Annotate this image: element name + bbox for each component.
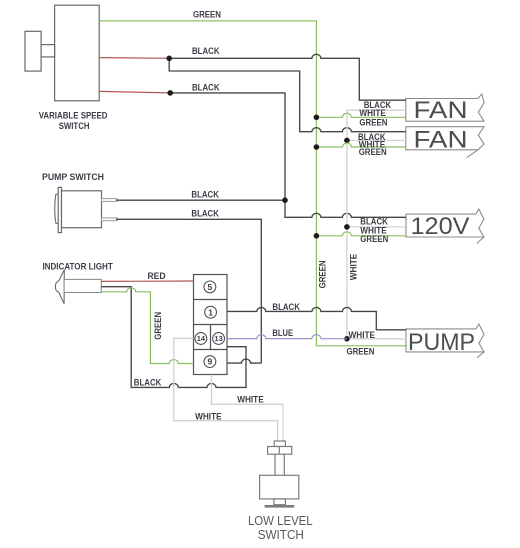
svg-text:WHITE: WHITE bbox=[359, 108, 386, 118]
svg-text:GREEN: GREEN bbox=[359, 117, 387, 127]
svg-text:WHITE: WHITE bbox=[195, 411, 222, 421]
junction dot PUMP white/blue bbox=[344, 336, 350, 342]
junction dot wire1 bbox=[166, 56, 172, 62]
svg-text:BLUE: BLUE bbox=[272, 328, 293, 338]
svg-text:VARIABLE SPEED: VARIABLE SPEED bbox=[39, 110, 108, 120]
low level switch bottom bar bbox=[265, 505, 295, 508]
variable speed switch shaft bbox=[41, 45, 55, 57]
svg-text:1: 1 bbox=[208, 307, 213, 317]
svg-text:BLACK: BLACK bbox=[192, 83, 220, 93]
connector FAN 1 box bbox=[406, 94, 484, 121]
wire indicator green to terminal 9 bbox=[101, 288, 193, 364]
low level switch collar bbox=[268, 447, 292, 455]
terminal 13 bbox=[213, 333, 225, 345]
low level switch top cap bbox=[274, 441, 285, 447]
wire pump switch 2 black down to terminal 9 bbox=[116, 219, 261, 363]
wire terminal 13 blue bbox=[227, 335, 347, 339]
pump switch flange bbox=[58, 187, 101, 232]
junction dot FAN1 green bbox=[314, 115, 320, 121]
connector 120V box bbox=[406, 209, 484, 237]
svg-text:INDICATOR LIGHT: INDICATOR LIGHT bbox=[42, 262, 113, 272]
wire PUMP white bbox=[347, 338, 407, 340]
svg-text:GREEN: GREEN bbox=[153, 312, 163, 340]
svg-text:GREEN: GREEN bbox=[317, 260, 327, 288]
junction dot 120V green bbox=[314, 233, 320, 239]
svg-text:GREEN: GREEN bbox=[360, 234, 388, 244]
svg-text:BLACK: BLACK bbox=[192, 46, 220, 56]
svg-text:BLACK: BLACK bbox=[191, 189, 219, 199]
svg-text:WHITE: WHITE bbox=[237, 395, 264, 405]
svg-text:GREEN: GREEN bbox=[193, 10, 221, 20]
svg-text:FAN: FAN bbox=[414, 127, 468, 154]
junction dot 120V white bbox=[344, 224, 350, 230]
wire indicator black to terminal 13 (detour) bbox=[101, 287, 246, 388]
wire 120V green bbox=[316, 232, 406, 236]
svg-text:SWITCH: SWITCH bbox=[59, 121, 90, 131]
svg-text:BLACK: BLACK bbox=[272, 302, 300, 312]
junction dot wire2 bbox=[167, 90, 173, 96]
low level switch float bbox=[260, 475, 299, 499]
svg-text:120V: 120V bbox=[411, 213, 470, 240]
wire VSS output 1 red segment bbox=[99, 57, 169, 60]
connector PUMP box bbox=[406, 324, 484, 352]
connector FAN 2 box bbox=[406, 127, 484, 150]
junction dot FAN2 green bbox=[314, 144, 320, 150]
terminal 1 bbox=[205, 306, 217, 318]
svg-text:9: 9 bbox=[208, 357, 213, 367]
svg-text:FAN: FAN bbox=[414, 97, 468, 124]
low level switch stem bbox=[274, 454, 276, 475]
terminal 5 bbox=[204, 281, 216, 293]
wire white bus (FAN1 white down to pump junction) bbox=[347, 110, 406, 339]
wire terminal 9 white to low level switch bbox=[212, 375, 284, 442]
wire terminal 14 white to low level switch bbox=[174, 338, 278, 441]
svg-text:13: 13 bbox=[214, 334, 222, 343]
variable speed switch knob bbox=[25, 31, 41, 71]
svg-text:GREEN: GREEN bbox=[359, 147, 387, 157]
terminal 9 bbox=[204, 356, 216, 368]
junction dot FAN2 white bbox=[344, 138, 350, 144]
wire pump switch 1 black bbox=[116, 199, 285, 201]
variable speed switch body bbox=[25, 5, 99, 101]
svg-text:LOW LEVEL: LOW LEVEL bbox=[248, 513, 313, 528]
svg-text:RED: RED bbox=[148, 271, 166, 281]
svg-text:PUMP SWITCH: PUMP SWITCH bbox=[42, 172, 104, 182]
pump switch body bbox=[62, 191, 102, 228]
wire FAN2 white bbox=[347, 139, 406, 141]
svg-text:BLACK: BLACK bbox=[191, 209, 219, 219]
terminal 14 bbox=[195, 333, 207, 345]
svg-text:SWITCH: SWITCH bbox=[258, 527, 304, 542]
wire VSS output 1 black to FAN1 bbox=[169, 54, 406, 100]
wire 120V white bbox=[347, 226, 406, 228]
wire FAN2 green bbox=[316, 143, 406, 147]
low level switch bbox=[260, 441, 299, 506]
wire green bus from VSS to PUMP bbox=[99, 21, 407, 346]
svg-text:WHITE: WHITE bbox=[349, 330, 376, 340]
pump switch terminal 1 bbox=[102, 199, 118, 202]
indicator light body bbox=[64, 279, 101, 292]
wire terminal 9 right stub bbox=[227, 359, 261, 363]
svg-text:GREEN: GREEN bbox=[347, 347, 375, 357]
wire VSS output 2 black to 120V bbox=[170, 93, 406, 217]
wire FAN1 green bbox=[316, 113, 405, 117]
svg-text:PUMP: PUMP bbox=[408, 329, 475, 356]
svg-text:WHITE: WHITE bbox=[348, 254, 358, 281]
wire VSS output 2 red segment bbox=[99, 91, 170, 93]
low level switch lower stub bbox=[274, 499, 286, 505]
svg-text:BLACK: BLACK bbox=[134, 378, 162, 388]
wire branch to FAN2 black bbox=[169, 58, 406, 131]
svg-text:5: 5 bbox=[208, 282, 213, 292]
wire terminal 1 black to PUMP bbox=[227, 307, 406, 329]
svg-text:14: 14 bbox=[197, 334, 206, 343]
pump switch rocker bbox=[55, 194, 58, 224]
wire indicator red bbox=[101, 280, 193, 282]
indicator light bezel bbox=[55, 270, 64, 304]
pump switch terminal 2 bbox=[102, 218, 118, 221]
terminal block bbox=[194, 275, 228, 375]
junction dot pump switch wire on black vertical bbox=[282, 197, 288, 203]
